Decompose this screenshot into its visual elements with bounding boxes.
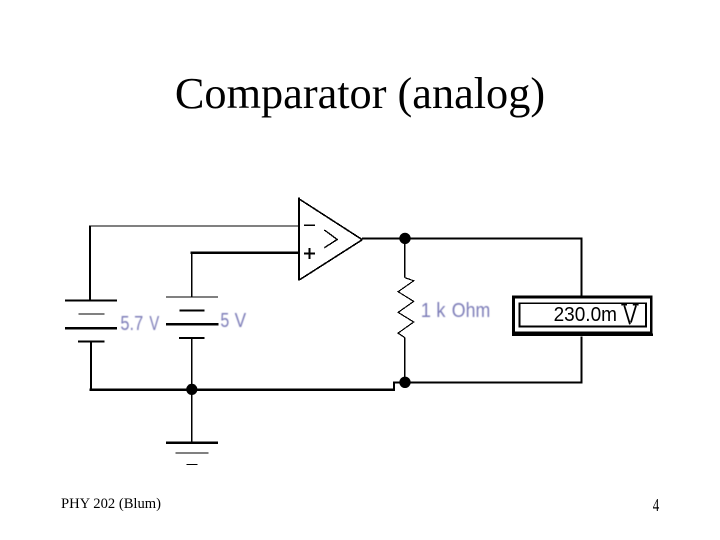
wire: short bottom segment to node B [393, 381, 405, 383]
svg-text:1: 1 [421, 299, 431, 322]
wire: battery B2 top lead [191, 252, 193, 298]
wire: bottom rail right segment [405, 381, 583, 383]
op-amp U1 comparator [299, 197, 362, 280]
wire: right rail down to voltmeter [581, 238, 583, 296]
wire: voltmeter bottom lead [581, 337, 583, 384]
wire: inverting input from left rail to op-amp [89, 225, 299, 227]
voltmeter M1 [512, 297, 653, 335]
label: 1 k Ohm (resistor R1 value) [421, 299, 490, 322]
svg-text:V: V [149, 312, 159, 335]
node G: junction ground / bottom rail [186, 384, 197, 395]
title [0, 68, 720, 119]
resistor R1 1 kOhm [398, 278, 414, 338]
svg-text:5.7: 5.7 [120, 311, 143, 334]
battery B2 (5 V source) [166, 297, 218, 338]
wire: battery B2 bottom lead down to ground [191, 338, 193, 443]
wire: left rail top (battery B1 + to inverting wire) [89, 226, 91, 301]
svg-text:Ohm: Ohm [452, 300, 490, 322]
wire: resistor top lead [404, 239, 406, 278]
wire: battery B1 bottom lead down left rail [90, 342, 92, 391]
svg-text:k: k [436, 299, 445, 322]
ground [166, 443, 218, 465]
battery B1 (5.7 V source) [65, 301, 117, 342]
wire: non-inverting input from battery B2 to op-amp [191, 251, 299, 254]
node B: junction resistor / bottom rail [399, 377, 410, 388]
label: 5 V (battery B2 value) [220, 308, 246, 332]
voltmeter reading 230.0m [554, 303, 617, 326]
svg-text:230.0m: 230.0m [554, 303, 617, 326]
voltmeter V unit glyph [621, 305, 638, 325]
footer [61, 496, 161, 513]
node A: junction op-amp output / resistor [399, 233, 410, 244]
wire: resistor bottom lead [404, 338, 406, 383]
svg-text:5: 5 [220, 308, 229, 331]
svg-text:V: V [235, 310, 247, 333]
wire: op-amp output to right rail [362, 238, 582, 240]
page number [649, 495, 663, 516]
wire: jog up to resistor node [393, 382, 395, 391]
label: 5.7 V (battery B1 value) [120, 311, 159, 334]
wire: bottom rail left segment [90, 389, 395, 391]
